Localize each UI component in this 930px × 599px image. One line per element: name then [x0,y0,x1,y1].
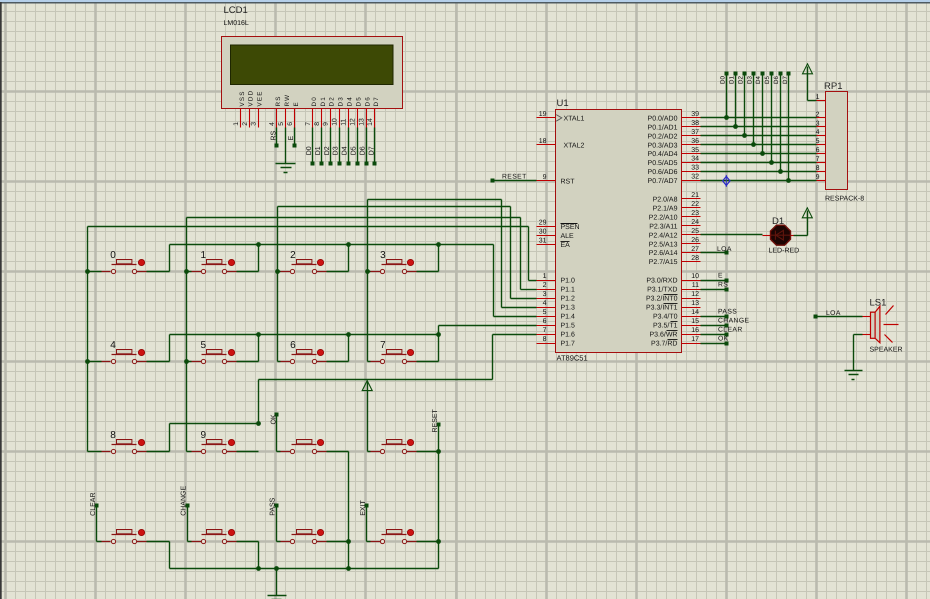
svg-text:34: 34 [691,156,699,163]
svg-text:D1: D1 [320,96,327,106]
svg-text:P0.1/AD1: P0.1/AD1 [648,123,678,131]
svg-text:D6: D6 [773,76,780,84]
svg-text:P0.3/AD3: P0.3/AD3 [648,141,678,149]
svg-text:P1.1: P1.1 [561,287,576,294]
svg-text:RESPACK-8: RESPACK-8 [825,196,864,203]
svg-text:D5: D5 [764,76,771,84]
svg-text:D2: D2 [329,96,336,106]
svg-text:LCD1: LCD1 [224,5,248,16]
svg-text:P3.3/INT1: P3.3/INT1 [646,304,678,312]
svg-text:P2.6/A14: P2.6/A14 [649,249,678,257]
svg-text:5: 5 [201,340,207,351]
svg-text:22: 22 [691,201,699,208]
svg-text:8: 8 [314,122,321,126]
svg-text:2: 2 [242,122,249,126]
svg-text:RS: RS [270,130,277,140]
svg-text:PSEN: PSEN [561,224,580,231]
svg-text:15: 15 [691,318,699,325]
svg-text:5: 5 [543,309,547,316]
svg-text:XTAL2: XTAL2 [564,142,585,149]
svg-text:7: 7 [380,340,386,351]
svg-text:P2.7/A15: P2.7/A15 [649,258,678,266]
svg-text:D7: D7 [373,96,380,106]
svg-text:14: 14 [367,118,374,126]
svg-text:PASS: PASS [718,308,737,315]
svg-text:D5: D5 [355,96,362,106]
svg-text:D3: D3 [746,76,753,84]
svg-text:P3.1/TXD: P3.1/TXD [647,286,677,294]
svg-text:RS: RS [718,281,728,288]
svg-text:E: E [288,136,295,141]
svg-text:23: 23 [691,210,699,217]
svg-text:CHANGE: CHANGE [181,486,188,516]
svg-text:EXIT: EXIT [360,500,367,516]
svg-text:1: 1 [233,122,240,126]
svg-text:LM016L: LM016L [224,20,249,27]
svg-text:SPEAKER: SPEAKER [870,347,903,354]
svg-text:39: 39 [691,111,699,118]
svg-text:2: 2 [543,282,547,289]
svg-text:32: 32 [691,174,699,181]
svg-text:D7: D7 [368,146,375,155]
svg-text:P0.4/AD4: P0.4/AD4 [648,150,678,158]
svg-text:17: 17 [691,336,699,343]
svg-text:3: 3 [380,250,386,261]
svg-text:PASS: PASS [270,497,277,515]
svg-text:D3: D3 [338,96,345,106]
svg-text:P3.6/WR: P3.6/WR [649,331,677,339]
svg-text:D4: D4 [755,76,762,84]
svg-text:13: 13 [358,118,365,126]
svg-text:VEE: VEE [257,90,264,106]
svg-text:4: 4 [543,300,547,307]
svg-text:24: 24 [691,219,699,226]
svg-text:1: 1 [201,250,207,261]
svg-text:6: 6 [287,122,294,126]
svg-text:8: 8 [543,336,547,343]
svg-text:7: 7 [543,327,547,334]
svg-text:CLEAR: CLEAR [718,326,743,333]
svg-text:E: E [718,272,723,279]
svg-text:D6: D6 [364,96,371,106]
svg-text:D4: D4 [346,96,353,106]
svg-text:VDD: VDD [248,90,255,107]
svg-text:21: 21 [691,192,699,199]
svg-text:D7: D7 [782,76,789,84]
svg-text:P3.4/T0: P3.4/T0 [653,313,678,321]
svg-text:18: 18 [539,138,547,145]
svg-text:10: 10 [691,273,699,280]
svg-text:28: 28 [691,255,699,262]
svg-text:P0.6/AD6: P0.6/AD6 [648,168,678,176]
svg-text:P3.7/RD: P3.7/RD [651,340,677,348]
svg-text:38: 38 [691,120,699,127]
svg-text:11: 11 [341,119,348,126]
svg-text:P2.4/A12: P2.4/A12 [649,231,678,239]
svg-text:P0.0/AD0: P0.0/AD0 [648,115,678,123]
svg-text:RS: RS [275,95,282,106]
svg-text:RP1: RP1 [824,81,842,92]
svg-text:OK: OK [270,414,277,424]
svg-text:3: 3 [251,122,258,126]
svg-text:P0.5/AD5: P0.5/AD5 [648,159,678,167]
svg-text:12: 12 [350,118,357,126]
svg-text:36: 36 [691,138,699,145]
svg-text:4: 4 [110,340,116,351]
svg-text:D1: D1 [728,76,735,84]
svg-text:D0: D0 [720,76,727,84]
svg-text:19: 19 [539,111,547,118]
svg-text:AT89C51: AT89C51 [557,354,588,363]
svg-text:6: 6 [290,340,296,351]
svg-text:CLEAR: CLEAR [90,492,97,515]
svg-text:5: 5 [278,122,285,126]
svg-text:P1.5: P1.5 [561,323,576,330]
svg-text:P1.4: P1.4 [561,314,576,321]
svg-text:9: 9 [201,430,207,441]
svg-text:D1: D1 [315,146,322,155]
svg-text:30: 30 [539,229,547,236]
svg-text:P3.5/T1: P3.5/T1 [653,322,678,330]
svg-text:E: E [293,101,300,106]
svg-text:P1.3: P1.3 [561,305,576,312]
svg-text:OK: OK [718,335,729,342]
svg-text:P0.7/AD7: P0.7/AD7 [648,177,678,185]
svg-text:D5: D5 [351,146,358,155]
svg-text:U1: U1 [557,98,569,109]
svg-text:8: 8 [110,430,116,441]
svg-text:P2.3/A11: P2.3/A11 [649,222,677,230]
svg-text:XTAL1: XTAL1 [564,116,585,123]
svg-text:D4: D4 [342,146,349,155]
svg-text:P2.0/A8: P2.0/A8 [653,195,678,203]
svg-text:16: 16 [691,327,699,334]
svg-text:P1.0: P1.0 [561,278,576,285]
svg-text:D6: D6 [360,146,367,155]
svg-text:37: 37 [691,129,699,136]
svg-text:29: 29 [539,220,547,227]
svg-text:D2: D2 [738,76,745,84]
svg-text:11: 11 [692,282,699,289]
svg-text:26: 26 [691,237,699,244]
svg-text:35: 35 [691,147,699,154]
svg-text:13: 13 [691,300,699,307]
svg-text:P3.0/RXD: P3.0/RXD [646,277,677,285]
svg-text:9: 9 [323,122,330,126]
svg-text:6: 6 [543,318,547,325]
svg-text:33: 33 [691,165,699,172]
svg-text:P1.2: P1.2 [561,296,576,303]
svg-text:D0: D0 [311,96,318,106]
svg-text:3: 3 [543,291,547,298]
svg-text:P2.1/A9: P2.1/A9 [653,204,678,212]
svg-text:RW: RW [284,94,291,107]
svg-text:VSS: VSS [239,90,246,106]
svg-text:P2.5/A13: P2.5/A13 [649,240,678,248]
svg-text:31: 31 [539,238,547,245]
svg-text:4: 4 [269,122,276,126]
svg-text:27: 27 [691,246,699,253]
svg-text:P1.6: P1.6 [561,332,576,339]
svg-text:D3: D3 [333,146,340,155]
svg-text:CHANGE: CHANGE [718,317,750,324]
svg-text:14: 14 [691,309,699,316]
svg-text:D2: D2 [324,146,331,155]
svg-text:ALE: ALE [561,233,575,240]
svg-text:P0.2/AD2: P0.2/AD2 [648,132,678,140]
svg-text:10: 10 [332,118,339,126]
svg-text:9: 9 [543,174,547,181]
svg-text:P3.2/INT0: P3.2/INT0 [646,295,678,303]
svg-text:RESET: RESET [502,174,527,181]
svg-text:D0: D0 [306,146,313,155]
svg-text:LS1: LS1 [870,298,887,309]
svg-text:2: 2 [290,250,296,261]
svg-text:RESET: RESET [432,408,439,432]
svg-text:P2.2/A10: P2.2/A10 [649,213,678,221]
svg-text:25: 25 [691,228,699,235]
svg-text:EA: EA [561,242,571,249]
svg-text:7: 7 [305,122,312,126]
svg-text:0: 0 [110,250,116,261]
svg-text:LED-RED: LED-RED [769,248,800,255]
svg-text:1: 1 [543,273,547,280]
svg-text:RST: RST [561,178,576,185]
svg-text:P1.7: P1.7 [561,341,576,348]
svg-text:LOA: LOA [717,246,732,253]
svg-text:D1: D1 [772,216,784,227]
svg-text:12: 12 [691,291,699,298]
